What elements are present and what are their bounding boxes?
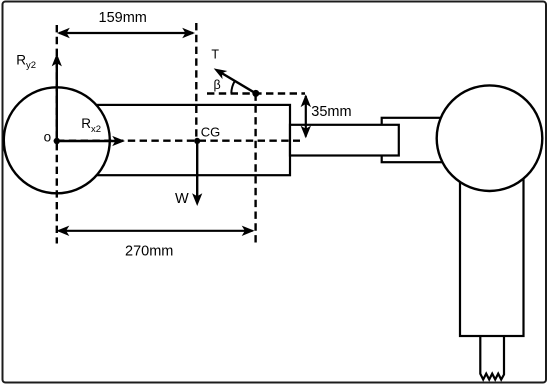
svg-text:β: β	[214, 78, 221, 92]
connecting bar into bracket	[290, 125, 399, 156]
node O dot	[54, 138, 60, 144]
svg-text:270mm: 270mm	[125, 243, 173, 259]
dashed vertical extension line through T anchor (x=255.6)	[254, 94, 256, 244]
dimension 270mm arrow	[57, 226, 255, 236]
dimension 35mm arrow (vertical double)	[301, 94, 311, 138]
svg-text:35mm: 35mm	[311, 104, 351, 120]
tension force arrow T (up-left at angle beta)	[214, 68, 256, 93]
reaction force arrow Ry2 (up)	[52, 54, 62, 142]
svg-text:T: T	[211, 47, 219, 61]
node CG dot	[194, 138, 200, 144]
dashed horizontal centerline y=140.7	[57, 139, 300, 141]
svg-text:W: W	[175, 191, 189, 207]
dashed vertical extension line through O (x=56.8)	[56, 25, 58, 244]
node T-anchor dot	[252, 90, 259, 97]
vertical column under right joint	[460, 165, 524, 336]
stem with break (jagged) below column	[480, 336, 504, 380]
angle arc beta	[231, 81, 235, 94]
svg-text:159mm: 159mm	[99, 10, 147, 26]
reaction force arrow Rx2 (right)	[57, 136, 125, 146]
pivot joint circle O (left)	[4, 87, 110, 193]
dashed horizontal line through T anchor y=93.5	[207, 92, 305, 94]
clevis bracket at right joint	[382, 118, 452, 162]
dashed vertical extension line through CG (x=196)	[195, 23, 197, 141]
dimension 159mm arrow	[57, 28, 195, 38]
arm link (horizontal member)	[60, 105, 290, 175]
svg-text:CG: CG	[201, 125, 221, 140]
right joint circle	[437, 85, 543, 191]
svg-text:o: o	[44, 129, 52, 144]
weight force arrow W (down)	[192, 141, 202, 206]
